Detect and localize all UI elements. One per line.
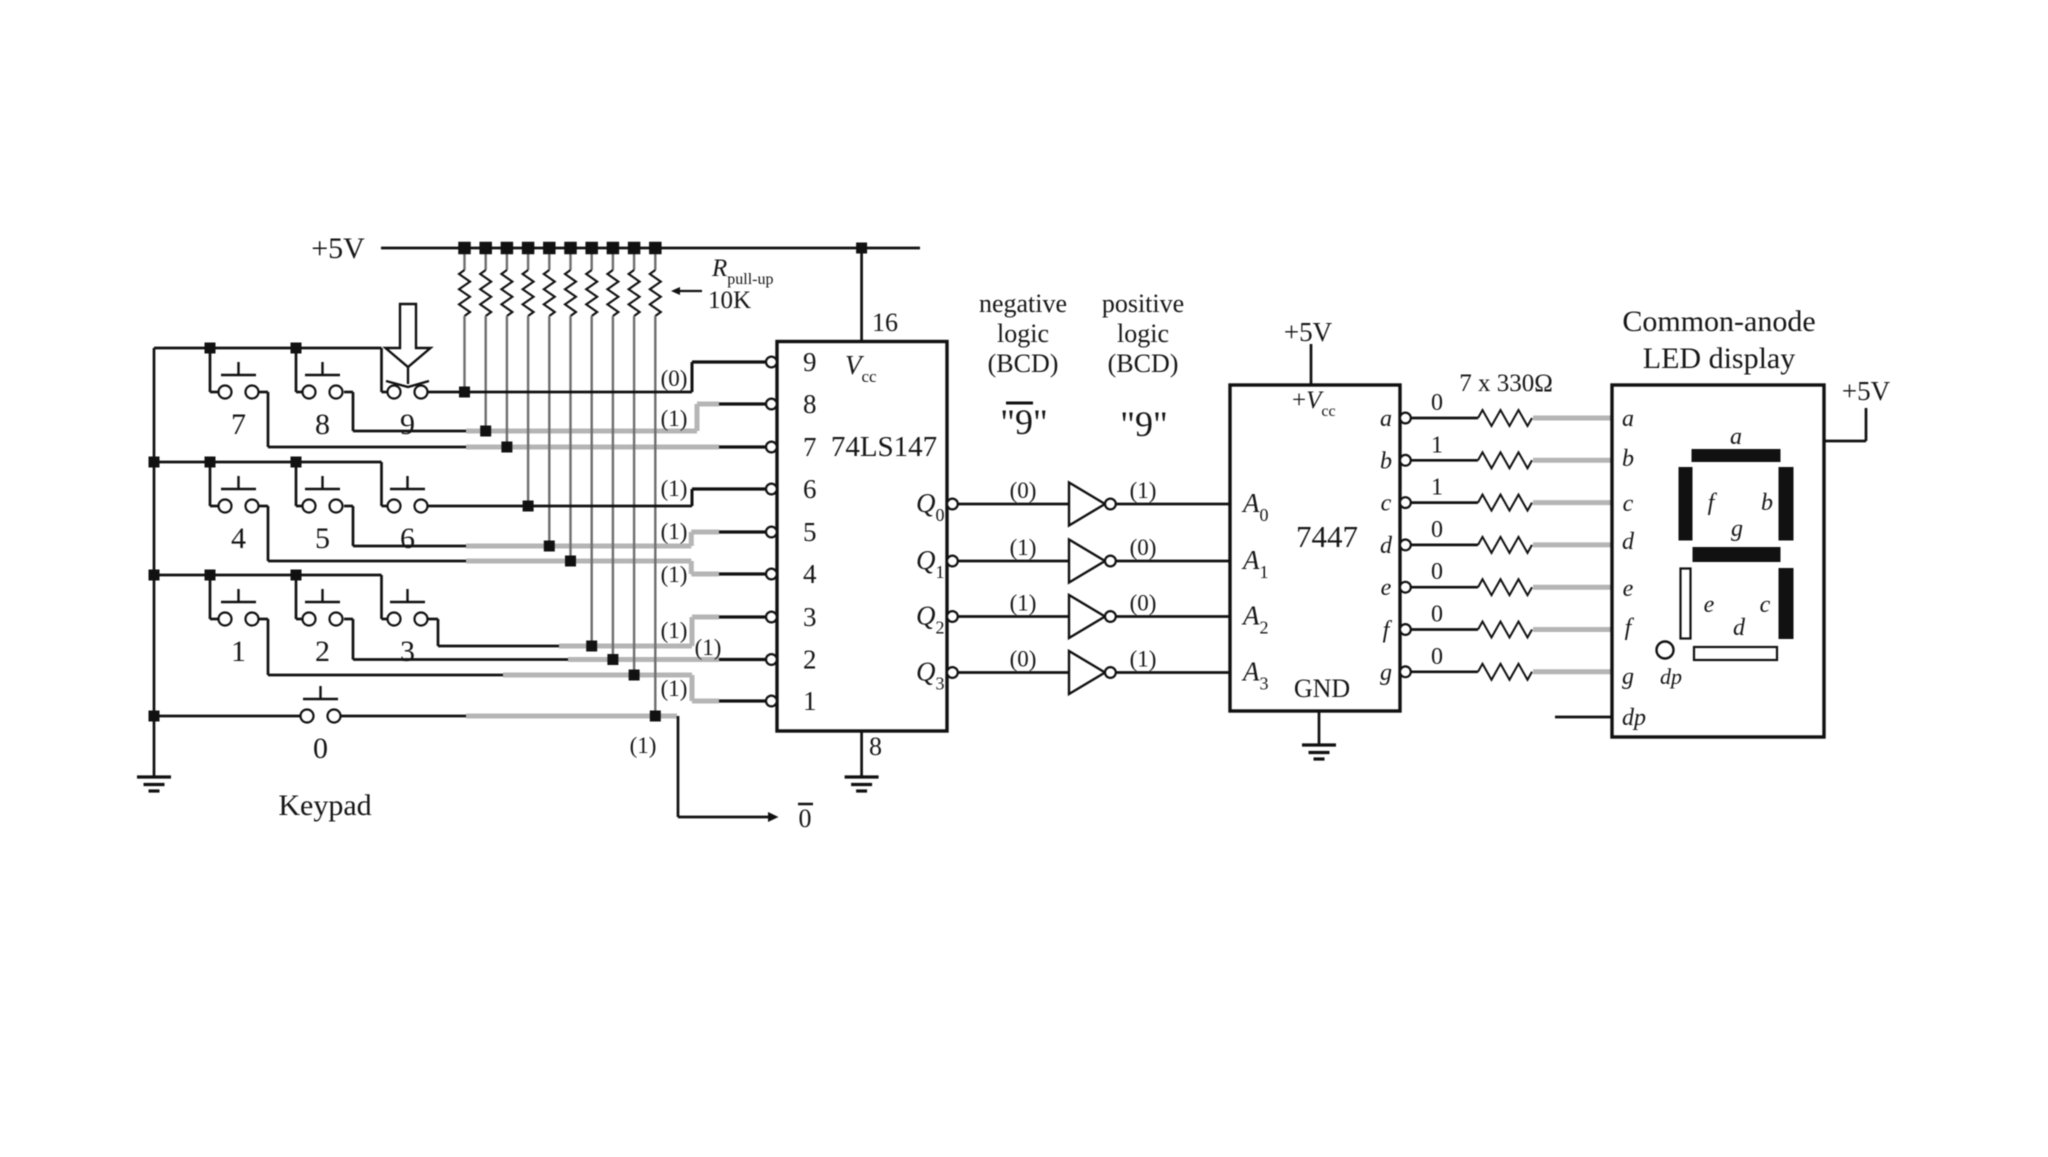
svg-text:0: 0	[1431, 390, 1443, 416]
svg-text:c: c	[1623, 491, 1634, 517]
svg-text:8: 8	[315, 408, 330, 441]
svg-text:(0): (0)	[1010, 478, 1037, 503]
svg-text:negative: negative	[979, 289, 1067, 318]
svg-text:3: 3	[400, 635, 415, 668]
svg-text:9: 9	[400, 408, 415, 441]
svg-text:GND: GND	[1294, 674, 1350, 703]
svg-text:7: 7	[231, 408, 246, 441]
svg-text:(1): (1)	[630, 733, 657, 758]
svg-text:1: 1	[231, 635, 246, 668]
svg-text:b: b	[1761, 490, 1773, 516]
svg-text:(1): (1)	[1010, 535, 1037, 560]
svg-text:b: b	[1380, 448, 1392, 474]
svg-text:LED display: LED display	[1643, 342, 1795, 375]
svg-text:16: 16	[872, 308, 898, 337]
svg-text:0: 0	[799, 804, 812, 833]
svg-text:+5V: +5V	[1284, 317, 1333, 347]
svg-text:1: 1	[1431, 432, 1443, 458]
svg-text:Keypad: Keypad	[278, 789, 371, 822]
svg-text:dp: dp	[1622, 705, 1646, 731]
svg-text:3: 3	[803, 602, 817, 632]
svg-text:"9": "9"	[1000, 402, 1047, 442]
svg-text:(1): (1)	[661, 476, 688, 501]
svg-text:5: 5	[803, 517, 817, 547]
svg-text:(0): (0)	[1130, 591, 1157, 616]
svg-text:(1): (1)	[661, 676, 688, 701]
svg-text:e: e	[1381, 575, 1392, 601]
svg-text:positive: positive	[1102, 289, 1184, 318]
svg-text:2: 2	[803, 645, 817, 675]
svg-text:d: d	[1622, 529, 1635, 555]
svg-text:(1): (1)	[661, 562, 688, 587]
svg-text:0: 0	[313, 732, 328, 765]
svg-text:e: e	[1623, 576, 1634, 602]
svg-text:(1): (1)	[661, 519, 688, 544]
svg-text:8: 8	[803, 389, 817, 419]
svg-text:9: 9	[803, 347, 817, 377]
svg-text:0: 0	[1431, 517, 1443, 543]
svg-text:g: g	[1731, 516, 1743, 542]
svg-text:74LS147: 74LS147	[831, 431, 937, 463]
svg-text:e: e	[1704, 592, 1715, 618]
svg-text:7: 7	[803, 432, 817, 462]
svg-text:g: g	[1380, 660, 1392, 686]
svg-text:a: a	[1622, 406, 1634, 432]
svg-text:g: g	[1622, 664, 1634, 690]
svg-text:10K: 10K	[708, 287, 751, 314]
svg-text:(1): (1)	[695, 635, 722, 660]
svg-text:c: c	[1760, 592, 1771, 618]
svg-text:a: a	[1730, 424, 1742, 450]
svg-text:+5V: +5V	[1842, 376, 1891, 406]
svg-text:(BCD): (BCD)	[1108, 349, 1179, 378]
svg-text:+5V: +5V	[311, 232, 365, 265]
svg-text:0: 0	[1431, 559, 1443, 585]
svg-text:Common-anode: Common-anode	[1622, 305, 1815, 338]
svg-text:4: 4	[803, 559, 817, 589]
svg-text:8: 8	[869, 732, 882, 761]
svg-text:5: 5	[315, 522, 330, 555]
svg-text:(BCD): (BCD)	[988, 349, 1059, 378]
svg-text:0: 0	[1431, 644, 1443, 670]
svg-text:1: 1	[803, 686, 817, 716]
svg-text:(0): (0)	[661, 366, 688, 391]
svg-text:"9": "9"	[1120, 404, 1167, 444]
svg-text:4: 4	[231, 522, 246, 555]
svg-text:d: d	[1380, 533, 1393, 559]
svg-text:7447: 7447	[1296, 519, 1358, 554]
svg-text:logic: logic	[997, 319, 1049, 348]
svg-text:(1): (1)	[661, 406, 688, 431]
svg-text:6: 6	[400, 522, 415, 555]
svg-text:6: 6	[803, 474, 817, 504]
svg-text:(0): (0)	[1010, 647, 1037, 672]
svg-text:logic: logic	[1117, 319, 1169, 348]
svg-text:(0): (0)	[1130, 535, 1157, 560]
svg-text:(1): (1)	[1130, 647, 1157, 672]
svg-text:(1): (1)	[1010, 591, 1037, 616]
svg-text:1: 1	[1431, 475, 1443, 501]
svg-text:0: 0	[1431, 602, 1443, 628]
svg-text:2: 2	[315, 635, 330, 668]
svg-text:7 x 330Ω: 7 x 330Ω	[1459, 370, 1553, 397]
svg-text:d: d	[1733, 615, 1746, 641]
svg-text:(1): (1)	[661, 618, 688, 643]
svg-text:c: c	[1381, 491, 1392, 517]
svg-text:(1): (1)	[1130, 478, 1157, 503]
svg-text:dp: dp	[1660, 664, 1682, 689]
svg-text:b: b	[1622, 446, 1634, 472]
svg-text:a: a	[1380, 406, 1392, 432]
